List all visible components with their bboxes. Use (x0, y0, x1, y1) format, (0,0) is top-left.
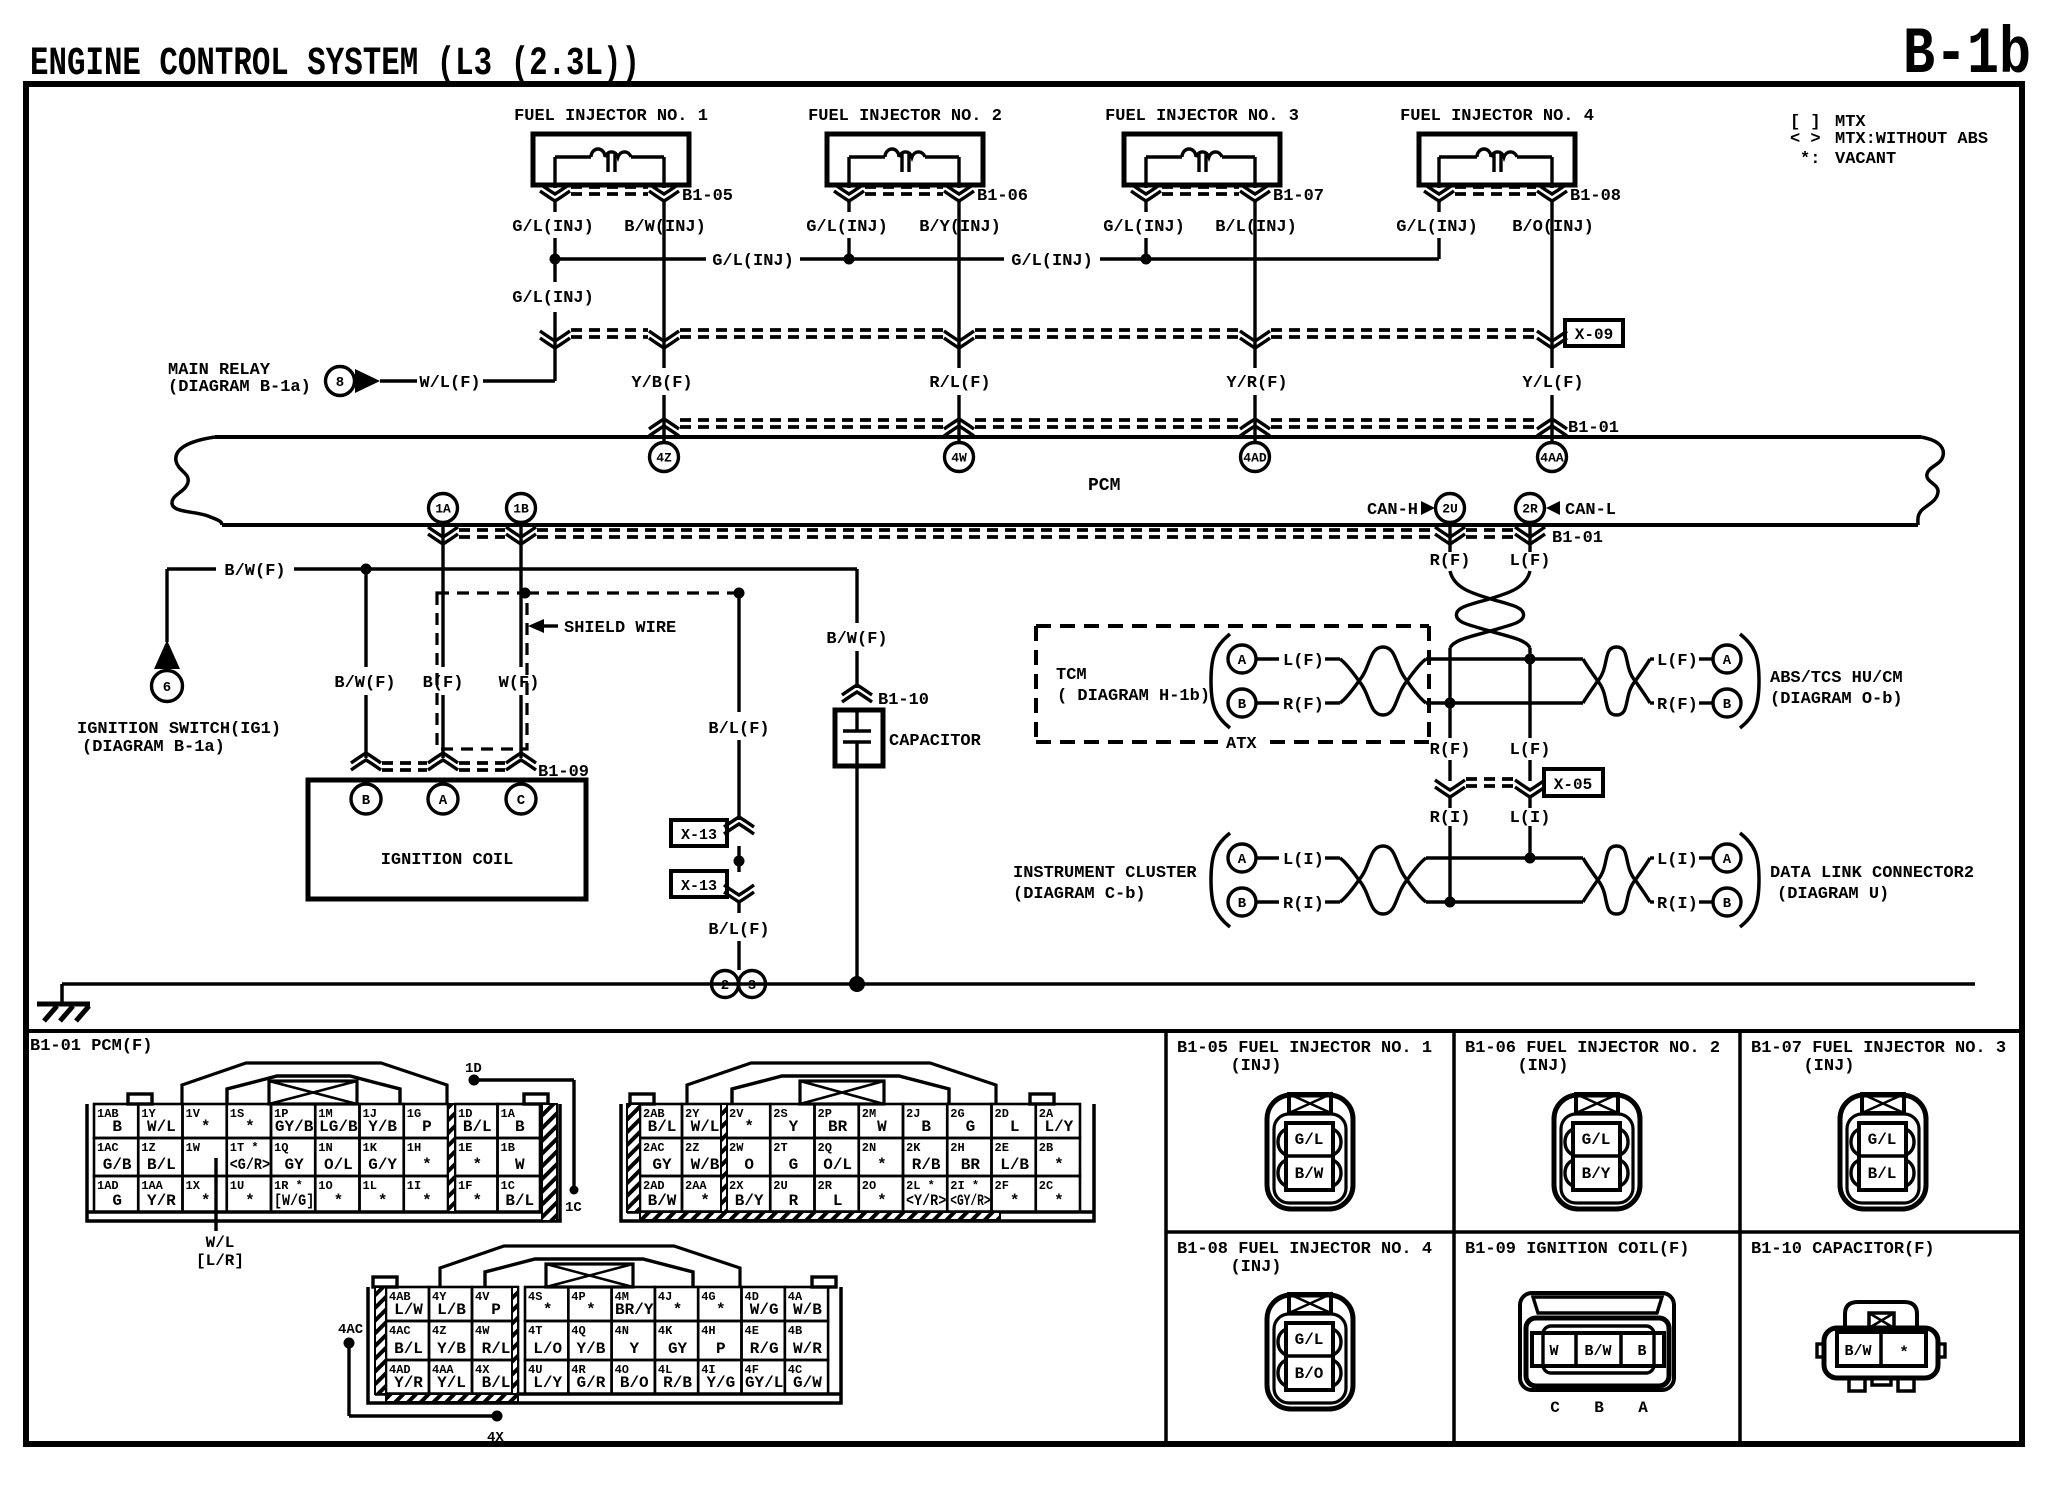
fuel injector no.2 pin wires inside box (847, 157, 850, 185)
twisted pair cluster to bus (1340, 858, 1426, 914)
svg-text:2E: 2E (995, 1141, 1009, 1155)
svg-text:2Q: 2Q (818, 1141, 832, 1155)
svg-text:2B: 2B (1039, 1141, 1053, 1155)
ignition coil box (308, 780, 586, 899)
svg-text:6: 6 (163, 680, 171, 696)
junction node G/L bus at injector 3 (1141, 254, 1152, 265)
svg-text:1L: 1L (363, 1179, 377, 1193)
connector face B1-10 feet (1849, 1378, 1865, 1391)
svg-text:4S: 4S (528, 1290, 542, 1304)
svg-text:GY: GY (652, 1156, 672, 1174)
svg-text:W/L: W/L (691, 1118, 720, 1136)
DLC2 bracket (1740, 833, 1759, 927)
svg-text:IGNITION SWITCH(IG1): IGNITION SWITCH(IG1) (77, 720, 281, 739)
PCM module band top edge (215, 435, 1921, 439)
svg-text:1AD: 1AD (97, 1179, 119, 1193)
wire R(I) cluster to DLC lower (1426, 900, 1583, 903)
svg-text:1N: 1N (318, 1141, 332, 1155)
connector face B1-10 side tabs (1817, 1344, 1824, 1357)
shield drain dashed wire to B/L(F) (527, 591, 739, 594)
connector X-13 lower symbol (724, 885, 754, 902)
svg-text:B1-09 IGNITION COIL(F): B1-09 IGNITION COIL(F) (1465, 1240, 1689, 1259)
fuel injector no.3 pin wires inside box (1144, 157, 1147, 185)
wire L(F) TCM to ABS upper (1426, 657, 1583, 660)
svg-text:L(I): L(I) (1510, 809, 1551, 828)
svg-text:2R: 2R (1522, 502, 1538, 517)
svg-text:Y/B(F): Y/B(F) (631, 374, 692, 393)
connector face B1-06 pin block (1573, 1123, 1620, 1190)
shield wire dashed box around B(F) and W(F) (437, 593, 527, 749)
svg-text:B: B (921, 1118, 931, 1136)
svg-text:B1-01 PCM(F): B1-01 PCM(F) (30, 1037, 152, 1056)
connector B1-09 row symbols (351, 753, 381, 770)
svg-text:BR/Y: BR/Y (615, 1301, 654, 1319)
svg-text:G/L: G/L (1295, 1331, 1324, 1349)
svg-text:2M: 2M (862, 1107, 876, 1121)
svg-text:FUEL INJECTOR NO. 2: FUEL INJECTOR NO. 2 (808, 107, 1002, 126)
PCM connector grid 4x cells (386, 1287, 429, 1321)
svg-text:1Z: 1Z (141, 1141, 155, 1155)
connector X-05 box (1544, 769, 1603, 796)
svg-text:1E: 1E (458, 1141, 472, 1155)
svg-text:2J: 2J (906, 1107, 920, 1121)
svg-text:L: L (1010, 1118, 1020, 1136)
wire stub below B1-05 left pin G/L(INJ) (553, 200, 556, 212)
connector face B1-09 pin row (1532, 1333, 1664, 1366)
svg-text:CAN-L: CAN-L (1565, 501, 1616, 520)
svg-text:Y/R(F): Y/R(F) (1226, 374, 1287, 393)
svg-text:2N: 2N (862, 1141, 876, 1155)
svg-text:1X: 1X (186, 1179, 201, 1193)
svg-text:R/L: R/L (482, 1340, 511, 1358)
svg-text:4Z: 4Z (656, 451, 672, 466)
svg-text:*: * (744, 1118, 754, 1136)
svg-text:< >: < > (1790, 130, 1821, 149)
wire B/W(F) to capacitor (855, 569, 858, 623)
connector face B1-07 housing (1840, 1095, 1926, 1209)
svg-text:1F: 1F (458, 1179, 472, 1193)
svg-text:W/G: W/G (750, 1301, 779, 1319)
connector face B1-08 pin block (1286, 1323, 1333, 1390)
svg-text:4AA: 4AA (1540, 451, 1564, 466)
svg-text:C: C (1550, 1399, 1560, 1417)
bottom section row divider (1166, 1230, 2022, 1234)
svg-text:B/O: B/O (1295, 1365, 1324, 1383)
svg-text:Y/B: Y/B (577, 1340, 606, 1358)
svg-text:<GY/R>: <GY/R> (950, 1192, 990, 1210)
twisted pair TCM to CAN bus (1340, 659, 1426, 715)
connector face B1-10 housing (1824, 1328, 1938, 1378)
svg-text:B1-05: B1-05 (682, 187, 733, 206)
connector face B1-06 housing (1554, 1095, 1640, 1209)
connector face B1-10 pin block (1837, 1332, 1926, 1366)
wire B/O(INJ) injector4 down to PCM 4AA (1550, 212, 1553, 368)
svg-text:2W: 2W (729, 1141, 744, 1155)
svg-text:1Q: 1Q (274, 1141, 288, 1155)
svg-text:*: * (245, 1118, 255, 1136)
wire stub below B1-07 right pin (1253, 200, 1256, 212)
svg-text:L(F): L(F) (1283, 652, 1324, 671)
svg-text:B/L: B/L (147, 1156, 176, 1174)
svg-text:2S: 2S (773, 1107, 787, 1121)
capacitor C1 box (835, 710, 883, 766)
DLC2 pin A (1713, 844, 1741, 872)
fuel injector no.2 coil L2 (849, 155, 885, 158)
wire label R(I) to DLC pin B (1650, 900, 1654, 903)
svg-text:W(F): W(F) (499, 674, 540, 693)
svg-text:O/L: O/L (324, 1156, 353, 1174)
connector face B1-07 latch (1862, 1094, 1904, 1113)
svg-text:[W/G]: [W/G] (274, 1192, 314, 1210)
connector X-13 upper box (671, 820, 727, 846)
connector B1-10 symbol on capacitor wire (842, 685, 872, 702)
svg-text:*: * (472, 1192, 482, 1210)
svg-text:2AA: 2AA (685, 1179, 707, 1193)
PCM pin 2U CAN-H (1436, 494, 1465, 523)
svg-text:DATA LINK CONNECTOR2: DATA LINK CONNECTOR2 (1770, 864, 1974, 883)
svg-text:G/W: G/W (793, 1374, 822, 1392)
wire W(F) PCM 1B to ignition coil pin C (519, 523, 522, 667)
svg-text:R(F): R(F) (1283, 696, 1324, 715)
PCM grid 1x top tabs (128, 1094, 152, 1104)
svg-text:B/W(F): B/W(F) (826, 630, 887, 649)
wire label L(I) to DLC pin A (1650, 856, 1654, 859)
svg-text:W: W (877, 1118, 887, 1136)
junction node CAN-H to R(F) (1445, 698, 1456, 709)
wire R(I) from cluster B (1256, 900, 1279, 903)
junction node capacitor ground (849, 976, 865, 992)
svg-text:G/L(INJ): G/L(INJ) (712, 252, 794, 271)
svg-text:L: L (833, 1192, 843, 1210)
svg-text:1A: 1A (435, 502, 451, 517)
svg-text:*: * (1010, 1192, 1020, 1210)
wire L(F) from TCM A (1256, 657, 1279, 660)
wire B/L(INJ) injector3 down to PCM 4AD (1253, 212, 1256, 368)
svg-text:<Y/R>: <Y/R> (906, 1192, 946, 1210)
junction node G/L bus at injector 1 (550, 254, 561, 265)
svg-text:X-05: X-05 (1554, 776, 1592, 794)
svg-text:R/B: R/B (663, 1374, 692, 1392)
wire stub below B1-05 right pin (662, 200, 665, 212)
svg-text:<G/R>: <G/R> (230, 1156, 270, 1174)
twisted pair to DLC2 (1583, 858, 1650, 914)
ignition coil pin A (428, 784, 458, 814)
ABS pin A (1713, 645, 1741, 673)
wire B/L(F) to ground nodes 2 3 (737, 900, 740, 913)
connector face B1-05 housing (1267, 1095, 1353, 1209)
PCM grid housing arch (687, 1063, 996, 1104)
svg-text:4V: 4V (475, 1290, 490, 1304)
svg-text:L/Y: L/Y (533, 1374, 562, 1392)
svg-text:W: W (515, 1156, 525, 1174)
svg-text:B/W(F): B/W(F) (224, 562, 285, 581)
svg-text:B1-07 FUEL INJECTOR NO. 3: B1-07 FUEL INJECTOR NO. 3 (1751, 1039, 2006, 1058)
svg-text:1O: 1O (318, 1179, 332, 1193)
svg-text:R(I): R(I) (1283, 895, 1324, 914)
ignition coil pin B (351, 784, 381, 814)
svg-text:2K: 2K (906, 1141, 921, 1155)
svg-text:B1-10 CAPACITOR(F): B1-10 CAPACITOR(F) (1751, 1240, 1935, 1259)
svg-text:2: 2 (721, 978, 729, 994)
connector face B1-08 inner shell (1274, 1314, 1346, 1403)
svg-text:A: A (1638, 1399, 1648, 1417)
svg-text:4Q: 4Q (571, 1324, 585, 1338)
PCM pin 4Z (650, 443, 679, 472)
svg-text:Y/B: Y/B (368, 1118, 397, 1136)
connector face B1-09 top strip (1533, 1297, 1662, 1313)
svg-text:( DIAGRAM H-1b): ( DIAGRAM H-1b) (1057, 687, 1210, 706)
bottom section column divider 2 (1452, 1031, 1456, 1444)
svg-text:L/W: L/W (394, 1301, 423, 1319)
fuel injector no.3 coil L3 (1146, 155, 1182, 158)
svg-text:R: R (789, 1192, 799, 1210)
svg-text:Y: Y (789, 1118, 799, 1136)
svg-text:G: G (789, 1156, 799, 1174)
svg-text:B1-01: B1-01 (1552, 529, 1603, 548)
wire B/W(F) to ignition coil pin B (364, 569, 367, 667)
svg-text:4E: 4E (745, 1324, 759, 1338)
svg-text:8: 8 (336, 375, 344, 391)
connector face B1-05 inner shell (1274, 1114, 1346, 1203)
svg-text:ENGINE CONTROL SYSTEM (L3 (2.3: ENGINE CONTROL SYSTEM (L3 (2.3L)) (30, 42, 640, 87)
svg-text:B/L(F): B/L(F) (708, 921, 769, 940)
wire L(I) cluster to DLC upper (1426, 856, 1583, 859)
svg-text:G/L(INJ): G/L(INJ) (512, 218, 594, 237)
wire to ignition switch with arrow (165, 569, 168, 642)
svg-text:*: * (716, 1301, 726, 1319)
wire stub W/L [L/R] from pin 1W (214, 1158, 217, 1231)
svg-text:B: B (1723, 697, 1732, 713)
svg-text:VACANT: VACANT (1835, 150, 1896, 169)
connector B1-06 symbol (847, 185, 850, 188)
wire stub below B1-07 left pin G/L(INJ) (1144, 200, 1147, 212)
svg-text:P: P (491, 1301, 501, 1319)
svg-text:W/B: W/B (691, 1156, 720, 1174)
svg-text:B/L: B/L (463, 1118, 492, 1136)
fuel injector no.4 pin wires inside box (1437, 157, 1440, 185)
svg-text:A: A (1723, 653, 1732, 669)
PCM pin 4AA (1538, 443, 1567, 472)
DLC2 pin B (1713, 888, 1741, 916)
svg-text:A: A (1238, 653, 1247, 669)
svg-text:*: * (245, 1192, 255, 1210)
svg-text:2X: 2X (729, 1179, 744, 1193)
svg-text:W/R: W/R (793, 1340, 822, 1358)
svg-text:4AC: 4AC (389, 1324, 411, 1338)
connector B1-01 bottom row symbols (428, 527, 458, 544)
svg-text:4T: 4T (528, 1324, 542, 1338)
svg-text:W/L: W/L (147, 1118, 176, 1136)
main relay arrow (355, 369, 380, 393)
svg-text:2O: 2O (862, 1179, 876, 1193)
svg-text:B(F): B(F) (423, 674, 464, 693)
wire capacitor to ground bus (855, 766, 858, 980)
svg-text:BR: BR (961, 1156, 981, 1174)
instrument cluster pin B (1228, 888, 1256, 916)
svg-text:2U: 2U (773, 1179, 787, 1193)
svg-text:GY/L: GY/L (745, 1374, 783, 1392)
connector face B1-09 inner cavity (1543, 1326, 1654, 1373)
svg-text:*: * (1054, 1156, 1064, 1174)
svg-text:B/L: B/L (648, 1118, 677, 1136)
connector face B1-08 latch (1289, 1294, 1331, 1313)
svg-text:B1-08: B1-08 (1570, 187, 1621, 206)
bottom section column divider 1 (1164, 1031, 1168, 1444)
svg-text:G/Y: G/Y (368, 1156, 397, 1174)
svg-text:4Z: 4Z (432, 1324, 446, 1338)
svg-text:R/L(F): R/L(F) (929, 374, 990, 393)
svg-text:G/L(INJ): G/L(INJ) (806, 218, 888, 237)
svg-text:1V: 1V (186, 1107, 201, 1121)
wire stub below B1-08 left pin G/L(INJ) (1437, 200, 1440, 212)
svg-text:B/L: B/L (482, 1374, 511, 1392)
svg-text:(INJ): (INJ) (1517, 1057, 1568, 1076)
svg-text:(DIAGRAM B-1a): (DIAGRAM B-1a) (82, 738, 225, 757)
svg-text:B1-10: B1-10 (878, 691, 929, 710)
connector B1-05 symbol (553, 185, 556, 188)
svg-text:B/Y: B/Y (1582, 1165, 1611, 1183)
wire stub 1D to 1C (469, 1075, 480, 1086)
svg-text:R(I): R(I) (1657, 895, 1698, 914)
svg-text:2V: 2V (729, 1107, 744, 1121)
svg-text:R(I): R(I) (1430, 809, 1471, 828)
svg-text:*: * (422, 1192, 432, 1210)
svg-text:*: * (334, 1192, 344, 1210)
connector face B1-05 side tabs (1278, 1129, 1286, 1155)
svg-text:(INJ): (INJ) (1803, 1057, 1854, 1076)
svg-text:2D: 2D (995, 1107, 1009, 1121)
svg-text:(INJ): (INJ) (1230, 1057, 1281, 1076)
svg-text:PCM: PCM (1088, 476, 1120, 496)
svg-text:CAPACITOR: CAPACITOR (889, 732, 982, 751)
svg-text:1B: 1B (501, 1141, 515, 1155)
svg-text:*: * (422, 1156, 432, 1174)
PCM grid 4x top tabs (373, 1277, 397, 1287)
svg-text:4K: 4K (658, 1324, 673, 1338)
svg-text:*: * (201, 1192, 211, 1210)
connector face B1-06 inner shell (1561, 1114, 1633, 1203)
svg-text:G/L(INJ): G/L(INJ) (1011, 252, 1093, 271)
svg-text:C: C (517, 793, 526, 809)
svg-text:B: B (1238, 697, 1247, 713)
svg-text:G/L(INJ): G/L(INJ) (512, 289, 594, 308)
svg-text:G/L: G/L (1868, 1131, 1897, 1149)
svg-text:1H: 1H (407, 1141, 421, 1155)
TCM pin B (1228, 689, 1256, 717)
svg-text:G/L(INJ): G/L(INJ) (1103, 218, 1185, 237)
connector X-13 lower box (671, 871, 727, 897)
svg-text:*: * (586, 1301, 596, 1319)
wire stub below B1-06 right pin (957, 200, 960, 212)
svg-text:B: B (1723, 896, 1732, 912)
wire stub below B1-06 left pin G/L(INJ) (847, 200, 850, 212)
wire R(I) down to cluster row (1448, 795, 1451, 808)
svg-text:B/W(F): B/W(F) (334, 674, 395, 693)
connector face B1-06 latch (1576, 1094, 1618, 1113)
connector face B1-05 pin block (1286, 1123, 1333, 1190)
shield wire callout arrow and label (528, 619, 544, 633)
TCM pin A (1228, 645, 1256, 673)
svg-text:GY: GY (285, 1156, 305, 1174)
PCM connector grid 2x cells (640, 1104, 682, 1138)
PCM grid B1-01 2x outer tray (621, 1104, 1094, 1221)
connector X-13 upper symbol (724, 817, 754, 834)
svg-text:Y/G: Y/G (706, 1374, 735, 1392)
wire B/L(F) from shield drain down (737, 593, 740, 712)
svg-text:O: O (744, 1156, 754, 1174)
svg-text:Y/L: Y/L (437, 1374, 466, 1392)
svg-text:1S: 1S (230, 1107, 244, 1121)
svg-text:1C: 1C (565, 1200, 582, 1216)
svg-text:B1-05 FUEL INJECTOR NO. 1: B1-05 FUEL INJECTOR NO. 1 (1177, 1039, 1432, 1058)
svg-text:2C: 2C (1039, 1179, 1053, 1193)
svg-text:*: * (877, 1156, 887, 1174)
wire label R(F) to ABS pin B (1650, 701, 1654, 704)
junction node B/W(F) to coil pin B (361, 564, 372, 575)
svg-text:SHIELD WIRE: SHIELD WIRE (564, 619, 676, 638)
wire CAN-H vertical R(F) (1448, 648, 1451, 738)
svg-text:G/L: G/L (1582, 1131, 1611, 1149)
svg-text:B/L(F): B/L(F) (708, 720, 769, 739)
svg-text:B/W: B/W (1295, 1165, 1324, 1183)
svg-text:A: A (1238, 852, 1247, 868)
svg-text:L/B: L/B (1000, 1156, 1029, 1174)
svg-text:4AD: 4AD (1243, 451, 1267, 466)
svg-text:X-13: X-13 (681, 878, 717, 895)
svg-text:B/L: B/L (394, 1340, 423, 1358)
PCM band left torn edge (172, 437, 222, 525)
wire B/Y(INJ) injector2 down to PCM 4W (957, 212, 960, 368)
PCM grid housing arch (440, 1246, 740, 1287)
svg-text:4B: 4B (788, 1324, 802, 1338)
svg-text:2H: 2H (950, 1141, 964, 1155)
PCM grid B1-01 1x outer tray (87, 1104, 560, 1221)
svg-text:2I *: 2I * (950, 1179, 979, 1193)
connector face B1-07 pin block (1859, 1123, 1906, 1190)
svg-text:B: B (1637, 1343, 1646, 1360)
svg-text:B: B (1238, 896, 1247, 912)
svg-text:B1-08 FUEL INJECTOR NO. 4: B1-08 FUEL INJECTOR NO. 4 (1177, 1240, 1432, 1259)
svg-text:B1-07: B1-07 (1273, 187, 1324, 206)
svg-text:GY/B: GY/B (275, 1118, 314, 1136)
connector B1-08 symbol (1437, 185, 1440, 188)
wire stub below B1-08 right pin (1550, 200, 1553, 212)
junction node between X-13 connectors (734, 856, 745, 867)
PCM pin 4W (945, 443, 974, 472)
svg-text:1B: 1B (513, 502, 529, 517)
svg-text:1C: 1C (501, 1179, 515, 1193)
svg-text:L(I): L(I) (1283, 851, 1324, 870)
svg-text:B/O: B/O (620, 1374, 649, 1392)
PCM grid 2x top tabs (630, 1094, 654, 1104)
wire R(F) from TCM B (1256, 701, 1279, 704)
svg-text:W/L(F): W/L(F) (419, 374, 480, 393)
svg-text:*: * (700, 1192, 710, 1210)
svg-text:B/L: B/L (1868, 1165, 1897, 1183)
wire label L(F) to ABS pin A (1650, 657, 1654, 660)
connector B1-01 top row symbols (649, 419, 679, 436)
svg-text:2AC: 2AC (643, 1141, 665, 1155)
svg-text:*: * (877, 1192, 887, 1210)
wire B(F) PCM 1A to ignition coil pin A (441, 523, 444, 667)
ground node 2 circle (712, 971, 739, 998)
junction node R(I) (1445, 897, 1456, 908)
bottom section column divider 3 (1738, 1031, 1742, 1444)
svg-text:Y/R: Y/R (147, 1192, 176, 1210)
TCM dashed box (1036, 624, 1429, 628)
svg-text:B/W: B/W (1584, 1343, 1611, 1360)
fuel injector no.3 box (1124, 134, 1280, 185)
